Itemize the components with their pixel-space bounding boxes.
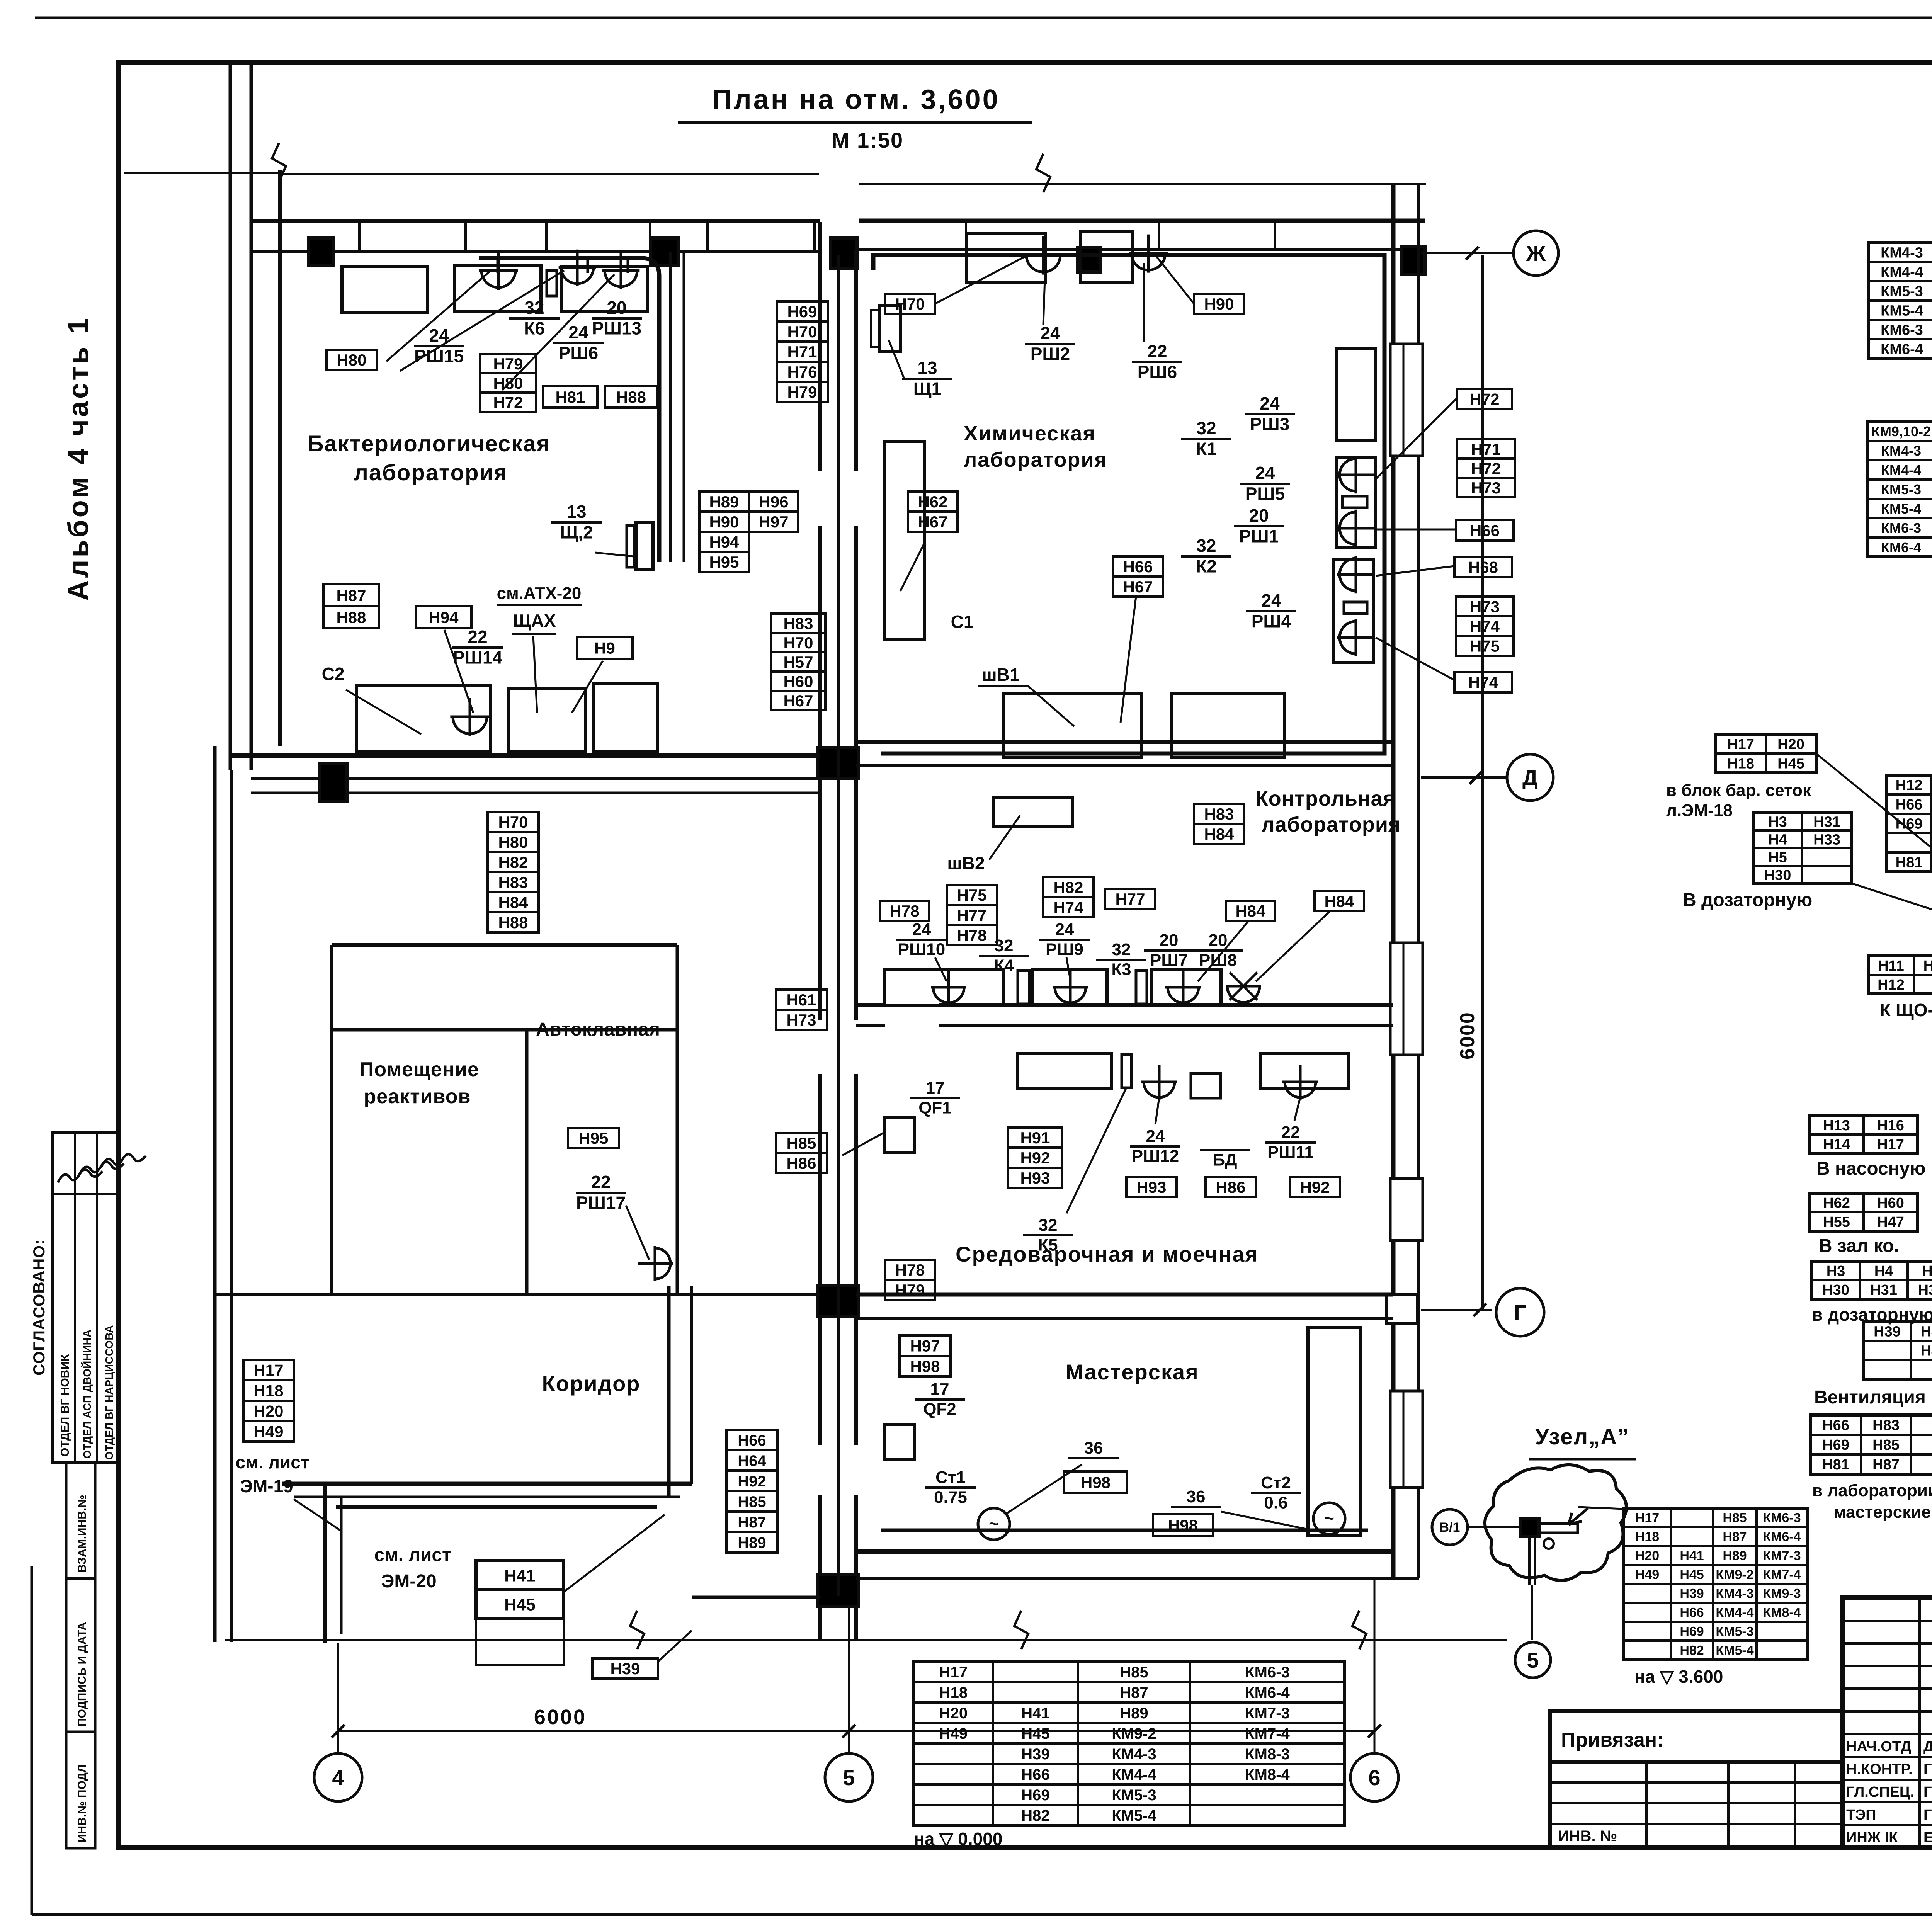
lamp bact 3	[602, 253, 640, 289]
svg-text:32: 32	[1196, 536, 1216, 556]
svg-text:К3: К3	[1111, 960, 1131, 979]
bench sred 1	[1018, 1054, 1112, 1088]
svg-text:ОТДЕЛ АСП ДВОЙНИНА: ОТДЕЛ АСП ДВОЙНИНА	[81, 1330, 93, 1459]
svg-text:24: 24	[429, 325, 449, 345]
label N78	[880, 901, 929, 921]
svg-text:КМ8-4: КМ8-4	[1763, 1605, 1801, 1620]
bact partition wall	[669, 252, 672, 562]
svg-text:6000: 6000	[1456, 1012, 1479, 1060]
privyazan row1	[1550, 1781, 1842, 1784]
svg-text:СОГЛАСОВАНО:: СОГЛАСОВАНО:	[30, 1239, 48, 1376]
svg-text:Н95: Н95	[578, 1129, 608, 1147]
svg-text:6: 6	[1368, 1765, 1380, 1790]
svg-text:Помещение: Помещение	[359, 1058, 479, 1081]
svg-text:Н97: Н97	[910, 1337, 940, 1355]
svg-text:Ж: Ж	[1526, 241, 1546, 265]
cluster N89 N90 N94 N95	[699, 492, 749, 512]
leader N70 chem	[935, 255, 1028, 304]
table lab	[1811, 1415, 1932, 1474]
disp table KM 1	[1868, 243, 1932, 359]
wall D corridor line	[251, 792, 820, 794]
svg-text:В зал ко.: В зал ко.	[1819, 1236, 1899, 1256]
privyazan col1	[1645, 1762, 1648, 1848]
G axis line	[1421, 1309, 1492, 1311]
leader C1b	[900, 541, 925, 591]
bottom dim tick 6	[1368, 1725, 1381, 1738]
svg-text:КМ7-3: КМ7-3	[1763, 1549, 1801, 1563]
Zh axis line	[1421, 252, 1512, 254]
label N84b	[1315, 891, 1364, 911]
svg-text:Н13: Н13	[1823, 1117, 1850, 1134]
axis circle 6	[1350, 1753, 1398, 1801]
annex left wall b	[340, 1497, 343, 1634]
wall top inner right	[859, 248, 1425, 251]
label N98 a	[1064, 1471, 1127, 1493]
uzel dash line	[1468, 1526, 1519, 1528]
reaktiv partition vertical	[525, 1030, 529, 1294]
svg-text:РШ3: РШ3	[1250, 414, 1290, 434]
svg-text:КМ6-4: КМ6-4	[1881, 539, 1921, 555]
svg-text:Н62: Н62	[918, 493, 947, 511]
svg-text:Н41: Н41	[1021, 1705, 1049, 1722]
wall left inner line	[250, 63, 253, 770]
svg-text:К5: К5	[1038, 1236, 1058, 1255]
svg-text:Н72: Н72	[1471, 459, 1501, 478]
label N9	[577, 637, 633, 659]
svg-text:Н83: Н83	[498, 873, 528, 891]
uzel small circle	[1544, 1539, 1554, 1549]
svg-text:Н66: Н66	[738, 1432, 766, 1449]
svg-text:Автоклавная: Автоклавная	[536, 1019, 660, 1040]
label N88	[605, 386, 658, 408]
svg-text:КМ5-4: КМ5-4	[1881, 303, 1923, 319]
table dozator1	[1753, 813, 1852, 884]
svg-text:4: 4	[332, 1765, 344, 1790]
svg-text:К2: К2	[1196, 556, 1217, 576]
bench stack group2	[1333, 560, 1374, 662]
spine door gap 3	[815, 1445, 861, 1495]
svg-text:ЕЛИЗАРОВА: ЕЛИЗАРОВА	[1923, 1830, 1932, 1846]
svg-text:Н94: Н94	[429, 609, 459, 627]
privyazan col2	[1727, 1762, 1730, 1848]
svg-text:ЭМ-19: ЭМ-19	[240, 1476, 293, 1496]
svg-text:КМ4-3: КМ4-3	[1881, 443, 1921, 459]
wall left lower outer	[213, 746, 217, 1642]
svg-text:Н89: Н89	[709, 493, 739, 511]
svg-text:РШ2: РШ2	[1031, 344, 1070, 364]
svg-text:С1: С1	[951, 612, 974, 632]
label N93b	[1126, 1177, 1177, 1197]
svg-text:Н14: Н14	[1823, 1136, 1850, 1153]
leader diag 7	[1816, 753, 1932, 943]
cluster N87 N88	[323, 584, 379, 606]
cluster N62 N67	[908, 492, 957, 512]
tb row lines	[1842, 1620, 1932, 1622]
column pilaster top far-right	[1402, 246, 1425, 275]
leader RSh9	[1066, 957, 1070, 980]
bench chem 1	[967, 234, 1045, 282]
svg-text:Н70: Н70	[783, 634, 813, 652]
cluster N79 N80 N72	[480, 354, 536, 373]
svg-text:36: 36	[1187, 1487, 1206, 1506]
uzel A underline	[1529, 1458, 1636, 1461]
cluster N91 N92 N93	[1008, 1128, 1062, 1148]
cluster N61 N73	[776, 990, 827, 1010]
svg-text:Н69: Н69	[1680, 1624, 1704, 1639]
break mark bottom 2	[1014, 1611, 1028, 1649]
svg-text:ИНВ.№ ПОДЛ: ИНВ.№ ПОДЛ	[76, 1764, 88, 1842]
cable run bottom	[881, 1529, 1368, 1532]
lamp RSh10	[931, 970, 966, 1005]
svg-text:Н82: Н82	[1021, 1807, 1049, 1824]
right dim line	[1481, 255, 1484, 1310]
svg-text:ГЛ.СПЕЦ.: ГЛ.СПЕЦ.	[1846, 1784, 1914, 1800]
margin stamp inv box	[66, 1732, 95, 1848]
svg-text:Н33: Н33	[1813, 832, 1840, 848]
leader RSh12	[1155, 1097, 1159, 1124]
door gap kontr	[885, 1001, 939, 1030]
spine column 3	[818, 1575, 859, 1606]
svg-text:36: 36	[1084, 1439, 1103, 1458]
svg-text:Н89: Н89	[1723, 1549, 1747, 1563]
svg-text:ГОЛЬЦМАН: ГОЛЬЦМАН	[1923, 1784, 1932, 1800]
leader lamp1	[386, 270, 491, 361]
svg-text:Н90: Н90	[1204, 295, 1234, 313]
table dozator2	[1812, 1261, 1932, 1299]
svg-text:КМ4-3: КМ4-3	[1716, 1587, 1753, 1601]
spine column 1	[818, 748, 859, 779]
device BD	[1191, 1073, 1221, 1098]
svg-text:КМ4-3: КМ4-3	[1112, 1746, 1156, 1763]
leader St1	[1005, 1464, 1082, 1515]
table nasos	[1810, 1116, 1918, 1153]
svg-text:20: 20	[1160, 931, 1179, 950]
svg-text:Н81: Н81	[1822, 1457, 1849, 1473]
svg-text:Н12: Н12	[1878, 977, 1905, 993]
svg-text:Н39: Н39	[1680, 1587, 1704, 1601]
wall left outer line	[229, 63, 232, 770]
lamp bact 1	[479, 252, 518, 290]
bench bact b1	[356, 685, 491, 751]
window right wall 3	[1390, 1179, 1423, 1240]
cluster N83 N70 N57 N60 N67	[771, 614, 825, 633]
svg-text:РШ10: РШ10	[898, 940, 946, 959]
svg-text:Н78: Н78	[957, 926, 986, 944]
svg-text:КМ6-3: КМ6-3	[1245, 1664, 1290, 1681]
svg-text:ГУСЕВА: ГУСЕВА	[1923, 1807, 1932, 1823]
svg-text:ИНВ. №: ИНВ. №	[1558, 1828, 1617, 1845]
lamp bact 2	[559, 250, 596, 286]
margin stamp podpis box	[66, 1578, 95, 1732]
leader N94b	[444, 630, 473, 713]
window right wall 4	[1390, 1391, 1423, 1488]
leader N66N67	[1121, 597, 1136, 723]
leader QF1	[842, 1132, 885, 1155]
device K4	[1018, 971, 1029, 1004]
svg-text:РШ12: РШ12	[1132, 1147, 1179, 1166]
lamp RSh12	[1141, 1065, 1177, 1100]
bench chem b2	[1171, 693, 1285, 757]
svg-text:Н87: Н87	[738, 1514, 766, 1531]
leader N68r	[1376, 566, 1454, 576]
svg-text:КМ7-4: КМ7-4	[1763, 1568, 1801, 1582]
svg-text:Н4: Н4	[1768, 832, 1787, 848]
svg-text:ТЭП: ТЭП	[1846, 1807, 1876, 1823]
svg-text:Н82: Н82	[1680, 1643, 1704, 1658]
wall top inner	[251, 250, 820, 253]
page outer thin border left (partial)	[31, 1566, 33, 1915]
leader shV2	[989, 815, 1020, 860]
svg-text:Н86: Н86	[786, 1154, 816, 1172]
label N66 right	[1456, 520, 1514, 541]
spine door gap 1	[815, 471, 861, 526]
wall top outer	[251, 219, 820, 223]
label N77	[1105, 889, 1155, 909]
svg-text:КМ6-3: КМ6-3	[1881, 520, 1921, 536]
svg-text:Г: Г	[1514, 1300, 1526, 1325]
wall left inner line 2	[278, 170, 282, 746]
bench bact b2	[508, 688, 586, 751]
svg-text:Н73: Н73	[1471, 479, 1501, 497]
svg-text:20: 20	[1209, 931, 1228, 950]
svg-text:Н88: Н88	[336, 609, 366, 627]
G axis circle	[1496, 1288, 1544, 1336]
bench bact 3	[561, 266, 647, 311]
column pilaster top right-mid	[1077, 247, 1100, 272]
svg-text:КМ8-3: КМ8-3	[1245, 1746, 1290, 1763]
svg-text:Н11: Н11	[1878, 958, 1904, 974]
label N70 chem	[885, 294, 935, 314]
svg-text:Альбом 4 часть 1: Альбом 4 часть 1	[62, 316, 94, 601]
svg-text:Н80: Н80	[493, 374, 523, 392]
svg-text:Н5: Н5	[1922, 1263, 1932, 1279]
annex right wall b	[690, 1286, 693, 1484]
svg-text:Н44: Н44	[1921, 1343, 1932, 1359]
Zh axis tick	[1466, 247, 1479, 260]
svg-text:РШ6: РШ6	[1138, 362, 1177, 382]
svg-text:Н72: Н72	[1469, 390, 1499, 408]
approval signature 1	[58, 1170, 102, 1182]
svg-text:КМ5-3: КМ5-3	[1716, 1624, 1753, 1639]
svg-text:мастерские: мастерские	[1833, 1503, 1931, 1522]
label N84a	[1226, 901, 1275, 921]
svg-text:Н29: Н29	[1923, 958, 1932, 974]
approval signature 2	[79, 1162, 124, 1175]
bottom dim tick 5	[842, 1725, 855, 1738]
svg-text:Бактериологическая: Бактериологическая	[308, 431, 551, 456]
lamp RSh14	[450, 698, 489, 736]
svg-text:32: 32	[995, 936, 1014, 955]
svg-text:Н70: Н70	[498, 813, 528, 831]
svg-text:Н9: Н9	[594, 639, 615, 657]
svg-text:Н66: Н66	[1896, 797, 1923, 813]
page outer thin border top	[35, 17, 1932, 19]
svg-text:Н49: Н49	[1635, 1568, 1659, 1582]
svg-text:Н89: Н89	[738, 1534, 766, 1551]
svg-text:КМ5-4: КМ5-4	[1112, 1807, 1156, 1824]
svg-text:Н73: Н73	[1470, 598, 1500, 616]
svg-text:Н70: Н70	[787, 323, 817, 341]
column pilaster spine top	[831, 238, 857, 269]
label N72 right	[1457, 389, 1512, 409]
svg-text:лаборатория: лаборатория	[354, 460, 508, 485]
svg-text:Н81: Н81	[1896, 855, 1923, 871]
label N68 right	[1454, 557, 1512, 577]
masterskaya bottom wall b	[856, 1577, 1419, 1580]
annex left wall a	[323, 1484, 327, 1643]
svg-text:ГУСЕВА: ГУСЕВА	[1923, 1761, 1932, 1777]
svg-text:Н94: Н94	[709, 533, 739, 551]
svg-text:Н45: Н45	[504, 1595, 536, 1614]
svg-text:Н62: Н62	[1823, 1195, 1850, 1211]
bact lamp drops	[497, 258, 499, 273]
svg-text:РШ1: РШ1	[1239, 526, 1279, 546]
svg-text:КМ5-3: КМ5-3	[1881, 481, 1921, 497]
svg-text:Н5: Н5	[1768, 850, 1787, 866]
leader diag 1	[1852, 883, 1932, 956]
svg-text:К1: К1	[1196, 439, 1217, 459]
axis line top left 2	[279, 173, 819, 175]
svg-text:Н82: Н82	[1053, 878, 1083, 896]
stack bench	[1337, 349, 1375, 440]
table schO	[1868, 956, 1932, 994]
svg-text:шВ1: шВ1	[982, 665, 1019, 685]
leader lamp3	[502, 274, 614, 390]
svg-text:РШ11: РШ11	[1267, 1143, 1314, 1162]
svg-text:Н97: Н97	[759, 513, 788, 531]
svg-text:Н92: Н92	[1300, 1178, 1330, 1196]
table na3600	[1624, 1508, 1807, 1660]
svg-text:ИНЖ IК: ИНЖ IК	[1846, 1830, 1898, 1846]
svg-text:Н80: Н80	[498, 833, 528, 851]
svg-text:Н69: Н69	[787, 303, 817, 321]
svg-text:В дозаторную: В дозаторную	[1683, 890, 1812, 910]
svg-text:КМ5-3: КМ5-3	[1112, 1787, 1156, 1804]
reaktiv room left wall	[330, 945, 333, 1294]
svg-text:Н55: Н55	[1823, 1214, 1850, 1230]
svg-text:РШ17: РШ17	[576, 1192, 626, 1213]
svg-text:шВ2: шВ2	[947, 853, 985, 873]
svg-text:КМ9-2: КМ9-2	[1112, 1725, 1156, 1742]
label ATX underline	[497, 604, 582, 606]
approval table divider 1	[74, 1132, 76, 1462]
cluster N17N20 top	[1716, 734, 1816, 773]
svg-text:см. лист: см. лист	[236, 1452, 310, 1472]
svg-text:Н31: Н31	[1870, 1282, 1897, 1298]
svg-text:Н47: Н47	[1877, 1214, 1904, 1230]
svg-text:Н92: Н92	[1020, 1149, 1050, 1167]
annex top wall b	[294, 1496, 680, 1498]
margin stamp vzam box	[66, 1462, 95, 1578]
svg-text:Н67: Н67	[918, 513, 947, 531]
device Sch1	[880, 305, 901, 352]
bench sred 2	[1260, 1054, 1349, 1088]
svg-text:Н17: Н17	[1635, 1511, 1659, 1526]
svg-text:Н17: Н17	[253, 1361, 283, 1379]
svg-text:Н82: Н82	[498, 853, 528, 871]
svg-text:Н18: Н18	[1635, 1530, 1659, 1544]
svg-text:Н80: Н80	[337, 351, 366, 369]
svg-text:20: 20	[1249, 505, 1269, 526]
break mark top right	[1036, 154, 1050, 192]
svg-text:Н84: Н84	[1235, 902, 1265, 920]
wall D left band top	[230, 753, 820, 758]
svg-text:32: 32	[1196, 418, 1216, 438]
svg-text:см. лист: см. лист	[374, 1545, 451, 1565]
svg-text:Н20: Н20	[253, 1402, 283, 1420]
cluster N78 N79	[885, 1260, 935, 1280]
svg-text:Н84: Н84	[498, 893, 528, 912]
svg-text:Н84: Н84	[1204, 825, 1234, 843]
svg-text:Привязан:: Привязан:	[1561, 1729, 1664, 1751]
bottom dim tick 4	[332, 1725, 345, 1738]
svg-text:БД: БД	[1213, 1151, 1237, 1170]
svg-text:24: 24	[568, 322, 588, 342]
svg-text:Н17: Н17	[939, 1664, 968, 1681]
svg-text:КМ5-3: КМ5-3	[1881, 284, 1923, 300]
title block outer	[1842, 1598, 1932, 1848]
leader K5	[1066, 1088, 1126, 1213]
svg-text:Н88: Н88	[498, 913, 528, 932]
svg-text:ВЗАМ.ИНВ.№: ВЗАМ.ИНВ.№	[76, 1495, 88, 1573]
spine door gap 2	[815, 1020, 861, 1074]
bench bact 1	[342, 266, 428, 313]
svg-text:Н64: Н64	[738, 1452, 766, 1469]
wall D right band bottom	[856, 764, 1393, 767]
leader RSh17	[626, 1206, 649, 1260]
window right wall 2 mid	[1403, 943, 1405, 1055]
svg-text:ЩАХ: ЩАХ	[513, 611, 556, 631]
label N74 right	[1454, 672, 1512, 692]
leader N39	[658, 1631, 692, 1662]
cluster N82 N74	[1043, 877, 1094, 897]
svg-text:ОТДЕЛ ВГ НАРЦИССОВА: ОТДЕЛ ВГ НАРЦИССОВА	[103, 1325, 115, 1460]
svg-text:Н67: Н67	[783, 692, 813, 710]
window right wall 2	[1390, 943, 1423, 1055]
leader N84a	[1198, 922, 1248, 981]
svg-text:Н3: Н3	[1768, 814, 1787, 830]
main plan title underline	[678, 121, 1032, 124]
column left D	[319, 763, 347, 802]
svg-text:РШ6: РШ6	[559, 343, 599, 363]
approval signature 3	[101, 1154, 146, 1167]
svg-text:32: 32	[1112, 940, 1131, 959]
svg-text:Мастерская: Мастерская	[1065, 1360, 1199, 1384]
leader N66r	[1376, 529, 1456, 531]
uzel device square	[1520, 1519, 1539, 1536]
svg-text:Н76: Н76	[787, 363, 817, 381]
svg-text:Н83: Н83	[1204, 805, 1234, 823]
lamp chem 2	[1129, 235, 1168, 273]
svg-text:Н78: Н78	[889, 902, 919, 920]
reaktiv partition horizontal	[332, 1028, 677, 1032]
svg-text:ДАНИЛОВ: ДАНИЛОВ	[1923, 1738, 1932, 1755]
svg-text:С2: С2	[322, 664, 345, 684]
lamp stack 4	[1337, 619, 1374, 656]
motor St2	[1313, 1503, 1345, 1534]
label N92b	[1290, 1177, 1340, 1197]
svg-text:Н67: Н67	[1123, 578, 1153, 596]
svg-text:24: 24	[1260, 393, 1280, 413]
svg-text:Н66: Н66	[1470, 522, 1500, 540]
svg-text:лаборатория: лаборатория	[1261, 813, 1401, 836]
svg-text:~: ~	[1324, 1509, 1334, 1528]
bench stack group1	[1337, 457, 1375, 548]
svg-text:Средоварочная и моечная: Средоварочная и моечная	[956, 1242, 1259, 1266]
svg-text:КМ6-3: КМ6-3	[1881, 322, 1923, 338]
privyazan row2	[1550, 1802, 1842, 1804]
leader SchAX	[533, 636, 537, 713]
